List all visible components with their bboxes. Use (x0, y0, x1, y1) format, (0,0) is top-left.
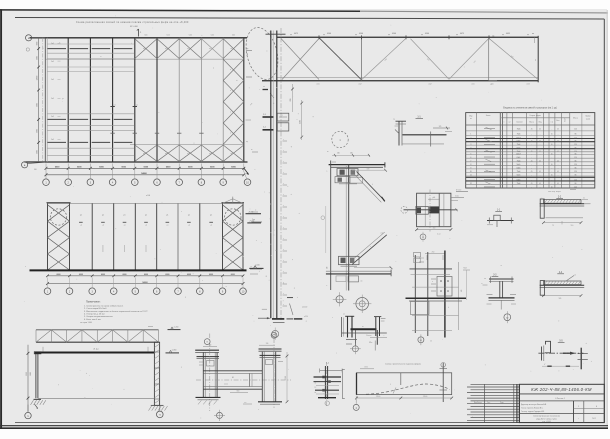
svg-text:3. Монтажные соединения на бол: 3. Монтажные соединения на болтах нормал… (84, 310, 148, 313)
svg-text:–: – (531, 168, 532, 170)
elevation right dim flag second (247, 222, 261, 224)
plan dimension row bays (46, 167, 244, 169)
svg-text:рk1: рk1 (433, 197, 436, 199)
detail G bolt blobs (322, 376, 325, 379)
svg-text:6000: 6000 (144, 274, 148, 276)
detail C dashed circle left (401, 206, 408, 213)
detail J center vertical (354, 330, 356, 346)
detail B dim arrows right (433, 127, 450, 129)
title block verticals (573, 401, 575, 423)
svg-text:б: б (544, 364, 545, 366)
svg-text:–: – (531, 187, 532, 189)
section d beam lines (540, 284, 585, 286)
svg-text:ПИ-2: ПИ-2 (592, 418, 596, 420)
svg-text:–: – (551, 171, 552, 173)
svg-text:2: 2 (470, 138, 471, 140)
truss panel diagonals (281, 39, 319, 80)
svg-text:н 8.4: н 8.4 (146, 195, 150, 197)
svg-text:ст: ст (251, 266, 253, 268)
title block code row line (519, 393, 604, 395)
section c top flange (489, 278, 514, 280)
detail G flange bar 2 (314, 381, 342, 383)
svg-text:–: – (551, 138, 552, 140)
column centerline dash-dot (280, 28, 282, 320)
svg-text:4500: 4500 (425, 33, 429, 35)
svg-text:вр: вр (247, 48, 249, 50)
svg-text:86: 86 (575, 141, 577, 143)
svg-text:сб1: сб1 (317, 84, 320, 86)
svg-text:11: 11 (470, 175, 472, 177)
svg-text:300: 300 (433, 228, 436, 230)
portal left column (35, 354, 37, 399)
svg-text:дб1: дб1 (490, 84, 493, 86)
svg-text:4: 4 (470, 147, 471, 149)
svg-text:6 Листов 4: 6 Листов 4 (555, 398, 564, 400)
detail J bracket lines (346, 339, 357, 341)
plan left edge double line (44, 38, 46, 162)
svg-text:6000: 6000 (36, 42, 38, 46)
svg-text:12: 12 (430, 341, 432, 343)
elevation grid bubbles (44, 288, 51, 295)
detail G bottom circle (325, 401, 329, 405)
svg-text:р1: р1 (188, 215, 190, 217)
svg-text:63х5: 63х5 (517, 180, 521, 182)
svg-text:86: 86 (575, 154, 577, 156)
svg-text:Сб1: Сб1 (211, 35, 214, 37)
svg-text:4500: 4500 (327, 33, 331, 35)
svg-text:кн: кн (327, 151, 329, 153)
detail G light row 1 (316, 384, 339, 386)
detail G flange bar 1 (314, 376, 342, 378)
svg-text:45: 45 (551, 144, 553, 146)
portal elevation flag 2 (166, 352, 180, 354)
portal truss top chord (36, 329, 159, 331)
svg-text:45: 45 (551, 154, 553, 156)
table column lines (475, 113, 477, 188)
detail B dashed circle mark (332, 131, 348, 147)
svg-text:Св1: Св1 (51, 79, 54, 81)
svg-text:6000: 6000 (165, 274, 169, 276)
elevation columns (47, 203, 49, 270)
detail D upper-left plates (414, 253, 421, 258)
portal elevation flag 1 (168, 329, 181, 331)
truss right end vertical (537, 36, 539, 83)
elevation ground line (30, 269, 247, 271)
detail G flange bar 3 (315, 389, 339, 391)
svg-text:р1: р1 (80, 215, 82, 217)
svg-text:100х7: 100х7 (516, 154, 521, 156)
detail J horizontal bar (351, 328, 377, 330)
svg-text:ка: ка (470, 118, 472, 120)
elevation bay1 X bracing (48, 205, 70, 221)
svg-text:+о: +о (166, 225, 168, 227)
svg-text:2 болта: 2 болта (366, 335, 371, 337)
svg-text:р1: р1 (145, 215, 147, 217)
detail C bottom dim (417, 229, 451, 231)
svg-text:–: – (551, 180, 552, 182)
svg-text:Б1: Б1 (232, 377, 234, 379)
svg-text:0,000: 0,000 (256, 265, 260, 267)
scan edge top (0, 10, 360, 11)
svg-text:+о: +о (210, 225, 212, 227)
detail F right section flanges (261, 352, 263, 402)
plan left dimension chain (38, 38, 40, 162)
svg-text:5: 5 (470, 154, 471, 156)
svg-text:45: 45 (531, 171, 533, 173)
svg-text:по: по (263, 86, 265, 88)
section b beam lines (540, 203, 585, 205)
section a rail (487, 220, 514, 222)
svg-text:800: 800 (237, 390, 240, 392)
svg-text:86: 86 (575, 175, 577, 177)
elevation top line (48, 202, 244, 204)
detail D right dim texts (463, 269, 470, 271)
detail C outer plate (417, 193, 451, 227)
detail A top diagonal brace (357, 172, 385, 201)
truss left panel dimension line (292, 84, 294, 112)
svg-text:21 м р: 21 м р (93, 348, 98, 350)
svg-text:Схема строительного подъема фе: Схема строительного подъема фермы (385, 362, 421, 365)
svg-text:12000: 12000 (36, 76, 38, 81)
plan top chord line (30, 37, 248, 39)
svg-text:45: 45 (551, 187, 553, 189)
truss panel point ticks (318, 35, 320, 39)
svg-text:Св1: Св1 (51, 116, 54, 118)
svg-text:124: 124 (574, 151, 577, 153)
svg-text:чание: чание (586, 118, 590, 120)
detail F beam centerline (196, 379, 291, 381)
elevation right elevation mark (249, 267, 263, 269)
svg-text:вс: вс (231, 48, 233, 50)
svg-text:63х5: 63х5 (517, 168, 521, 170)
svg-text:Масса: Масса (529, 122, 534, 124)
portal leader arrow (35, 404, 38, 408)
column base plate (272, 318, 284, 320)
truss panel vertical at 489 (488, 37, 490, 80)
svg-text:Эскиз: Эскиз (486, 115, 491, 117)
detail J right member (375, 317, 377, 336)
detail D inner frame (437, 277, 452, 297)
scan edge left (0, 9, 2, 428)
table row lines (466, 130, 595, 132)
svg-text:450: 450 (461, 289, 463, 292)
svg-text:б: б (448, 307, 449, 309)
svg-text:45: 45 (539, 160, 541, 162)
table thick row lines (466, 138, 595, 140)
svg-text:+8,400: +8,400 (248, 212, 253, 214)
svg-text:45: 45 (531, 160, 533, 162)
svg-text:250: 250 (432, 251, 435, 253)
svg-text:сб1: сб1 (472, 84, 475, 86)
svg-text:Директор института Иванов А.В: Директор института Иванов А.В. (521, 403, 547, 406)
svg-text:шт: шт (509, 122, 511, 124)
svg-text:45: 45 (557, 171, 559, 173)
svg-text:1200: 1200 (300, 120, 302, 124)
svg-text:75х6: 75х6 (517, 144, 521, 146)
svg-text:45: 45 (539, 183, 541, 185)
section e right vertical (580, 348, 582, 370)
svg-text:вс: вс (143, 153, 145, 155)
svg-text:вс: вс (231, 153, 233, 155)
svg-text:р1: р1 (210, 215, 212, 217)
title block row lines (519, 400, 604, 402)
svg-text:63х5: 63х5 (517, 141, 521, 143)
svg-text:Сб1: Сб1 (232, 35, 235, 37)
svg-text:вп: вп (532, 33, 534, 35)
svg-text:Б1: Б1 (420, 340, 422, 342)
svg-text:–: – (531, 147, 532, 149)
svg-text:Св1: Св1 (51, 98, 54, 100)
detail H mid divider (400, 373, 402, 385)
svg-text:6000: 6000 (209, 274, 213, 276)
svg-text:–: – (551, 147, 552, 149)
plan top brace band lower line (46, 58, 244, 60)
section c dim marks left (483, 284, 488, 286)
svg-text:ряда А и Б. Схемы и узлы: ряда А и Б. Схемы и узлы (536, 418, 557, 421)
svg-text:870: 870 (367, 168, 370, 170)
svg-text:–: – (551, 151, 552, 153)
svg-text:–: – (531, 180, 532, 182)
svg-text:6: 6 (470, 157, 471, 159)
detail F right centerline and circle (273, 339, 275, 409)
svg-text:н.м: н.м (244, 402, 246, 404)
detail A left edge vertical (330, 161, 332, 291)
svg-text:б1: б1 (583, 197, 585, 199)
detail A bottom double circle (356, 298, 369, 311)
svg-text:75х6: 75х6 (517, 183, 521, 185)
revision table verticals (484, 384, 486, 422)
svg-text:45: 45 (551, 134, 553, 136)
plan left small mark circle (26, 48, 29, 51)
detail B column stub (398, 121, 400, 145)
svg-text:р1: р1 (102, 215, 104, 217)
detail A left dim marks (332, 161, 336, 163)
svg-text:в: в (230, 69, 231, 71)
svg-text:260: 260 (337, 152, 340, 154)
portal right grid bubble (157, 411, 164, 418)
svg-text:45: 45 (557, 160, 559, 162)
svg-text:Сб1: Сб1 (189, 35, 192, 37)
svg-text:75х6: 75х6 (517, 134, 521, 136)
detail H dashed camber arc (366, 384, 450, 394)
detail F beam lower dim (230, 392, 248, 394)
svg-text:6000: 6000 (57, 274, 61, 276)
svg-text:75х6: 75х6 (517, 171, 521, 173)
detail H bottom circle (353, 404, 359, 410)
section c base plate (489, 297, 515, 299)
svg-text:сб2: сб2 (359, 84, 362, 86)
svg-text:12: 12 (315, 387, 317, 389)
svg-text:4475: 4475 (294, 33, 298, 35)
detail J bottom circle (352, 346, 358, 352)
svg-text:–: – (551, 168, 552, 170)
svg-text:1: 1 (578, 406, 579, 408)
svg-text:вр: вр (246, 141, 248, 143)
svg-text:45: 45 (539, 128, 541, 130)
svg-text:124: 124 (574, 171, 577, 173)
svg-text:330: 330 (266, 343, 269, 345)
svg-text:–: – (531, 144, 532, 146)
detail F right dim line (286, 352, 288, 402)
svg-text:86: 86 (575, 160, 577, 162)
svg-text:124: 124 (574, 164, 577, 166)
detail F right base (258, 401, 282, 403)
plan dimension row overall (46, 174, 244, 176)
svg-text:2. Сталь марки ВСт3пс6: 2. Сталь марки ВСт3пс6 (84, 308, 107, 310)
detail D horizontals (410, 268, 453, 270)
table header lines (466, 124, 595, 126)
elevation dim row bays (48, 275, 244, 277)
svg-text:М 1:20: М 1:20 (456, 189, 461, 191)
svg-text:1250: 1250 (285, 376, 287, 380)
frame border top (15, 18, 604, 20)
svg-text:1-1: 1-1 (263, 114, 266, 116)
portal right base hatch (151, 404, 164, 406)
svg-text:585: 585 (559, 298, 562, 300)
plan right edge line (243, 38, 245, 162)
svg-text:М 1:400: М 1:400 (130, 26, 139, 28)
svg-text:–: – (551, 160, 552, 162)
truss bottom chord (262, 80, 539, 82)
plan grid bubble row B (26, 35, 32, 41)
detail A gusset top (337, 169, 358, 176)
section d leader (566, 276, 574, 282)
svg-text:6000: 6000 (30, 372, 32, 376)
elevation bay10 top chord dark (222, 202, 245, 204)
detail F beam flange lines (204, 370, 263, 372)
svg-text:45: 45 (531, 151, 533, 153)
elevation roof peak right (223, 199, 233, 204)
svg-text:6000: 6000 (231, 274, 235, 276)
svg-text:9: 9 (470, 168, 471, 170)
svg-text:L: L (372, 184, 373, 186)
svg-text:Примечание:: Примечание: (86, 301, 101, 304)
plan right small marks (246, 50, 252, 52)
column base right leaders (290, 304, 294, 316)
detail C bottom circle mark (420, 234, 426, 240)
scan edge right light (606, 10, 608, 428)
svg-text:–: – (551, 141, 552, 143)
svg-text:Св1: Св1 (51, 139, 54, 141)
svg-text:1: 1 (327, 171, 328, 173)
svg-text:мн: мн (361, 281, 363, 283)
detail C center horizontal (404, 209, 456, 211)
truss bottom chord light line (277, 77, 539, 79)
svg-text:50х5: 50х5 (517, 147, 521, 149)
svg-text:шв: шв (484, 278, 486, 280)
svg-text:6000: 6000 (36, 150, 38, 154)
svg-text:Б2: Б2 (506, 317, 508, 319)
plan right brace band X bracing (223, 59, 244, 80)
svg-text:50х5: 50х5 (517, 164, 521, 166)
svg-text:7: 7 (470, 160, 471, 162)
svg-text:сб3: сб3 (527, 84, 530, 86)
svg-text:М24: М24 (464, 268, 467, 270)
svg-text:–: – (531, 138, 532, 140)
column base circle mark (272, 331, 279, 338)
detail F right section cap plates (259, 348, 282, 350)
svg-text:0,5kн: 0,5kн (455, 195, 459, 197)
svg-text:124: 124 (574, 138, 577, 140)
svg-text:63х5: 63х5 (517, 157, 521, 159)
svg-text:Связи вертикальные по колоннам: Связи вертикальные по колоннам (533, 416, 560, 418)
detail F left section bolts (207, 361, 215, 367)
truss left below-chord marks (263, 89, 269, 91)
svg-text:510: 510 (571, 225, 574, 227)
detail H right vertical gauge (442, 363, 444, 402)
svg-text:124: 124 (574, 187, 577, 189)
svg-text:Гл.спец. отдела Сидоров Н.И.: Гл.спец. отдела Сидоров Н.И. (521, 411, 545, 413)
detail C centerline vertical (429, 190, 431, 232)
svg-text:Изм.Кол.уч: Изм.Кол.уч (474, 402, 482, 404)
svg-text:Св1: Св1 (51, 43, 54, 45)
detail A lower gusset (339, 256, 360, 264)
table below marks (456, 191, 468, 193)
detail A bottom bubble cross (336, 296, 343, 303)
svg-text:86: 86 (575, 183, 577, 185)
detail J long horizontal line (342, 332, 387, 334)
plan grid bubble 10 offset (244, 179, 251, 186)
svg-text:12: 12 (470, 183, 472, 185)
section d bottom dims (544, 295, 582, 297)
svg-text:–: – (531, 175, 532, 177)
svg-text:вс: вс (143, 48, 145, 50)
svg-text:св: св (362, 326, 364, 328)
section b bottom dims (544, 222, 582, 224)
svg-text:в: в (230, 90, 231, 92)
svg-text:Сечение: Сечение (516, 122, 522, 124)
svg-text:+о: +о (188, 225, 190, 227)
svg-text:дп: дп (62, 98, 64, 100)
column bolt ticks (283, 140, 288, 142)
plan grid bubbles (43, 179, 50, 186)
section d top flange hatched (544, 281, 582, 285)
svg-text:75: 75 (552, 225, 554, 227)
section e centerline arrow (538, 352, 583, 354)
svg-text:кн2: кн2 (381, 233, 384, 235)
elevation bay10 X bracing (223, 205, 244, 221)
svg-text:вс: вс (209, 48, 211, 50)
detail D bottom bubble (418, 337, 424, 343)
svg-text:45: 45 (531, 141, 533, 143)
svg-text:6. Катет шва 6 мм: 6. Катет шва 6 мм (84, 319, 101, 321)
detail A column shaft (348, 165, 350, 291)
plan bottom chord line (25, 161, 248, 163)
svg-text:оп: оп (535, 59, 537, 61)
svg-text:Масса: Масса (573, 118, 578, 120)
svg-text:Сб1: Сб1 (144, 35, 147, 37)
svg-text:КЖ 202-Ч-88,89-1406.0-КМ: КЖ 202-Ч-88,89-1406.0-КМ (531, 387, 592, 392)
portal truss verticals and diagonals (35, 330, 37, 342)
svg-text:124: 124 (574, 180, 577, 182)
svg-text:45: 45 (557, 128, 559, 130)
svg-text:6000: 6000 (36, 129, 38, 133)
portal truss bottom chord (36, 341, 159, 343)
svg-text:Сб1: Сб1 (167, 35, 170, 37)
svg-text:6000: 6000 (79, 274, 83, 276)
detail A top dim line right (352, 169, 386, 171)
svg-text:кн: кн (251, 149, 253, 151)
svg-text:+о: +о (80, 225, 82, 227)
detail D verticals (414, 255, 416, 333)
elevation mid ticks (102, 245, 104, 252)
svg-text:+4,800: +4,800 (172, 350, 177, 352)
svg-text:1: 1 (470, 134, 471, 136)
detail H upper-left marks (360, 368, 374, 370)
svg-text:8: 8 (470, 164, 471, 166)
svg-text:50х5: 50х5 (517, 175, 521, 177)
title block right cells line (574, 407, 605, 409)
